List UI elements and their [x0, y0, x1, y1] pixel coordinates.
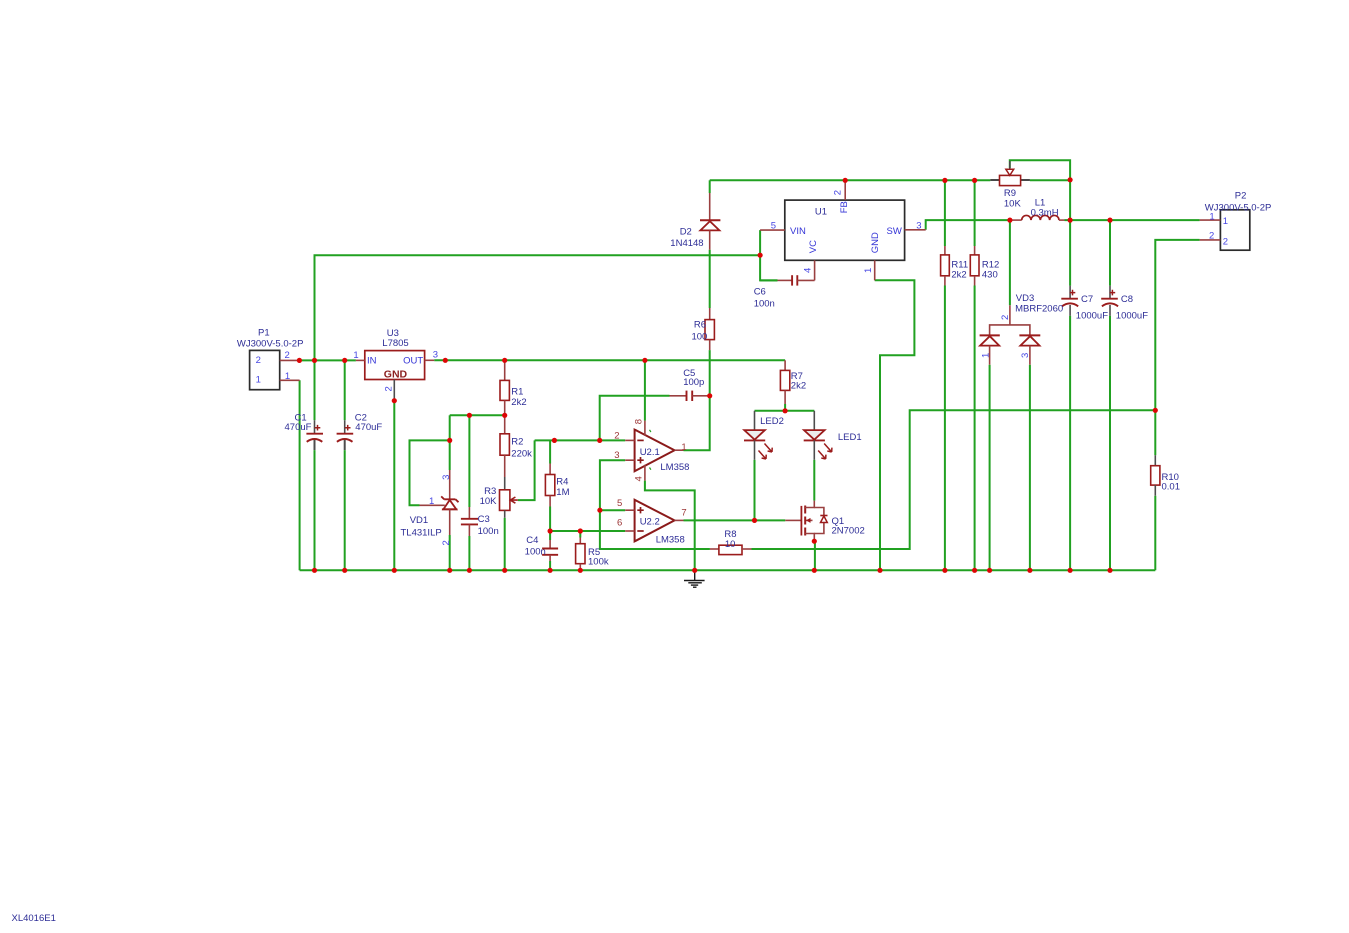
U2.1 pin numbers [614, 419, 686, 481]
label L1 [1031, 197, 1059, 218]
wire: R1 bottom node horizontal [450, 414, 505, 416]
capacitor C1 [306, 420, 323, 442]
label Q1 [832, 516, 865, 537]
node dot: R10/P2 sense node [1153, 408, 1158, 413]
svg-text:1: 1 [429, 496, 434, 507]
resistor R5 [576, 538, 585, 571]
node dot: C5/output node [707, 393, 712, 398]
label R6 [691, 320, 707, 343]
wire: VD1 cathode drop [449, 415, 451, 470]
wire: R7 bottom stub [784, 404, 786, 411]
node dot: Q1 source [812, 539, 817, 544]
node dot: bus R5 [578, 568, 583, 573]
svg-text:U2.1: U2.1 [640, 447, 660, 458]
wire: U2.2 pin6 net horizontal [550, 530, 625, 532]
svg-text:XL4016E1: XL4016E1 [12, 913, 56, 924]
node dot: P1 pin2 lead [297, 358, 302, 363]
svg-text:2: 2 [1000, 315, 1011, 320]
svg-text:1: 1 [256, 374, 261, 385]
resistor R7 [780, 360, 789, 404]
label R7 [791, 371, 806, 392]
svg-text:TL431ILP: TL431ILP [401, 527, 442, 538]
wire: R9 wiper loop [1010, 160, 1070, 180]
P2 pin numbers [1209, 212, 1228, 248]
U1 pin names [790, 201, 902, 253]
wire: LED2 cathode down [754, 460, 756, 521]
op-amp U2.2 [625, 500, 683, 542]
node dot: VIN/C6 node [758, 253, 763, 258]
capacitor C8 [1101, 286, 1118, 316]
capacitor C2 [337, 420, 354, 442]
wire: Q1 source to bus [814, 541, 816, 570]
node dot: R11 top [942, 178, 947, 183]
resistor R2 [500, 415, 509, 477]
VD3 pin numbers [980, 315, 1031, 358]
node dot: LED2/gate node [752, 518, 757, 523]
transistor Q1 2N7002 [785, 501, 827, 542]
label U2.2 [640, 517, 685, 546]
node dot: U3 OUT lead [443, 358, 448, 363]
svg-text:OUT: OUT [403, 356, 423, 367]
node dot: VD1 cathode [447, 438, 452, 443]
svg-text:IN: IN [367, 356, 377, 367]
wire: FB top net horizontal [710, 179, 1070, 181]
svg-text:6: 6 [617, 517, 622, 528]
svg-text:1: 1 [285, 371, 290, 382]
wire: R3 wiper up to inverting node [518, 440, 535, 500]
node dot: bus VD1 [447, 568, 452, 573]
node dot: FB pin [843, 178, 848, 183]
svg-text:SW: SW [886, 226, 901, 237]
svg-text:LED2: LED2 [760, 416, 784, 427]
svg-text:3: 3 [916, 220, 921, 231]
svg-text:1: 1 [1209, 212, 1214, 223]
svg-text:VC: VC [808, 240, 819, 253]
wire: U2.1 pin2 net horizontal [535, 439, 626, 441]
svg-text:0.3mH: 0.3mH [1031, 208, 1059, 219]
node dot: bus VD3-1 [987, 568, 992, 573]
resistor R8 [710, 545, 752, 554]
node dot: bus C8 [1107, 568, 1112, 573]
svg-text:2: 2 [285, 350, 290, 361]
U1 pin numbers [771, 190, 922, 273]
wire: VD3 anode 1 to bus [989, 365, 991, 571]
svg-text:100k: 100k [588, 557, 609, 568]
svg-text:WJ300V-5.0-2P: WJ300V-5.0-2P [237, 338, 304, 349]
svg-text:2: 2 [256, 355, 261, 366]
node dot: VOUT/C7 node [1068, 218, 1073, 223]
svg-text:R1: R1 [511, 386, 523, 397]
U3 pin names [367, 356, 423, 381]
svg-text:0.01: 0.01 [1162, 482, 1181, 493]
regulator U3 L7805 [356, 351, 434, 401]
label P1 [237, 327, 304, 349]
node dot: R12 top [972, 178, 977, 183]
LED LED2 [744, 411, 772, 460]
svg-text:1: 1 [353, 350, 358, 361]
wire: VD3 common pin up to SW node [1009, 220, 1011, 305]
wire: D2 top from FB rail [709, 180, 711, 193]
potentiometer R3 [500, 477, 518, 518]
svg-text:GND: GND [870, 232, 881, 253]
node dot: R4 top [552, 438, 557, 443]
svg-text:U2.2: U2.2 [640, 517, 660, 528]
svg-text:2: 2 [614, 430, 619, 441]
wire: LED1 cathode to Q1 drain [813, 460, 815, 501]
svg-text:470uF: 470uF [285, 422, 312, 433]
svg-text:2k2: 2k2 [791, 381, 806, 392]
label R4 [556, 476, 569, 498]
wire: U2.1 pin3 / U2.2 pin5 / R8 net [600, 460, 710, 549]
wire: U2.1 pin4 route to ground point [645, 481, 695, 571]
svg-text:MBRF2060: MBRF2060 [1015, 304, 1063, 315]
svg-text:VD1: VD1 [410, 515, 428, 526]
svg-text:GND: GND [384, 368, 408, 380]
node dot: bus C7 [1068, 568, 1073, 573]
svg-text:100p: 100p [683, 377, 704, 388]
svg-text:VD3: VD3 [1016, 293, 1034, 304]
svg-text:LM358: LM358 [660, 462, 689, 473]
svg-text:1M: 1M [556, 487, 569, 498]
label R1 [511, 386, 526, 408]
node dot: U3 GND lead [392, 398, 397, 403]
wire: input rail P1 pin2 to U3 IN [298, 359, 356, 361]
svg-text:C6: C6 [754, 287, 766, 298]
label D2 [670, 227, 703, 249]
node dot: R1 top [502, 358, 507, 363]
U2.2 pin numbers [617, 498, 687, 528]
node dot: bus U3 [392, 568, 397, 573]
wire: SW node from U1 to L1 [926, 220, 1010, 230]
label R9 [1004, 188, 1022, 209]
wire: U1 GND pin route to ground bus [875, 280, 915, 570]
svg-text:2: 2 [384, 386, 395, 391]
wire: R10 column [1154, 410, 1156, 570]
svg-text:1N4148: 1N4148 [670, 238, 703, 249]
shunt regulator VD1 TL431ILP [420, 470, 459, 535]
resistor R1 [500, 360, 509, 415]
wire: R4 bottom to pin6 node [549, 507, 551, 541]
wire: C7 column [1069, 180, 1071, 571]
node dot: bus C4 [548, 568, 553, 573]
wire: R12 column [974, 180, 976, 570]
svg-text:P2: P2 [1235, 190, 1247, 201]
wire: ground bus [300, 569, 1156, 571]
node dot: U2.1 pin8 rail [642, 358, 647, 363]
capacitor C7 [1061, 286, 1078, 316]
svg-text:VIN: VIN [790, 226, 806, 237]
node dot: C5 branch [597, 438, 602, 443]
P1 pin numbers [256, 350, 291, 385]
svg-text:10K: 10K [480, 496, 498, 507]
wire: VD1 anode to bus [449, 535, 451, 570]
svg-text:2: 2 [441, 540, 452, 545]
svg-text:1: 1 [681, 442, 686, 453]
svg-text:100n: 100n [754, 299, 775, 310]
svg-text:LM358: LM358 [656, 535, 685, 546]
wire: C2 branch [344, 360, 346, 570]
capacitor C3 [461, 507, 478, 536]
wire: 5V rail U3 OUT to R7 [434, 359, 785, 361]
wire: C5 left branch [600, 396, 670, 441]
wire: R11 column [944, 180, 946, 570]
wire: R4 top branch [549, 440, 551, 463]
svg-text:LED1: LED1 [838, 432, 862, 443]
svg-text:220k: 220k [511, 448, 532, 459]
svg-text:3: 3 [1020, 353, 1031, 358]
wire: P2 pin2 down to sense node [1155, 240, 1199, 410]
label R8 [724, 529, 736, 550]
label P2 [1205, 190, 1272, 213]
svg-text:WJ300V-5.0-2P: WJ300V-5.0-2P [1205, 203, 1272, 214]
node dot: SW/VD3 node [1007, 218, 1012, 223]
wire: U2.2 output to Q1 gate [684, 519, 786, 521]
label R5 [588, 547, 609, 568]
svg-text:2: 2 [1209, 230, 1214, 241]
label C3 [478, 514, 499, 537]
controller U1 [760, 180, 926, 280]
label U2.1 [640, 447, 690, 473]
svg-text:P1: P1 [258, 327, 270, 338]
svg-text:3: 3 [614, 450, 619, 461]
label R12 [982, 260, 999, 281]
wire: C1 branch [314, 360, 316, 570]
svg-text:100n: 100n [478, 526, 499, 537]
label C7 [1076, 294, 1108, 321]
label R11 [951, 260, 968, 281]
ground [684, 570, 705, 587]
label R2 [511, 437, 532, 460]
op-amp U2.1 [625, 421, 683, 481]
svg-text:8: 8 [633, 419, 644, 424]
wire: C8 column [1109, 220, 1111, 570]
label VD3 [1015, 293, 1063, 315]
svg-text:1: 1 [863, 268, 874, 273]
svg-text:7: 7 [681, 507, 686, 518]
connector P1 [250, 350, 300, 389]
node dot: bus C1 [312, 568, 317, 573]
capacitor C5 [670, 391, 710, 401]
U3 pin numbers [353, 350, 438, 392]
wire: VIN pin jog down to C6 [760, 230, 777, 280]
svg-text:L1: L1 [1035, 197, 1046, 208]
label U3 [382, 328, 408, 349]
svg-text:3: 3 [433, 350, 438, 361]
node dot: bus R11 [942, 568, 947, 573]
label R3 [480, 486, 498, 507]
node dot: R4/C4 node [548, 528, 553, 533]
inductor L1 [1010, 215, 1065, 220]
svg-text:2: 2 [833, 190, 844, 195]
node dot: bus Q1 [812, 568, 817, 573]
svg-text:R4: R4 [556, 476, 568, 487]
node dot: R7/LED node [783, 408, 788, 413]
wire: VD3 anode 3 to bus [1029, 365, 1031, 571]
resistor R11 [941, 246, 950, 286]
node dot: bus ground [692, 568, 697, 573]
wire: C4 bottom to bus [549, 561, 551, 570]
svg-text:1000uF: 1000uF [1116, 310, 1148, 321]
node dot: C1 top [312, 358, 317, 363]
wire: VIN long wire to input net [315, 255, 761, 360]
svg-text:100: 100 [691, 332, 707, 343]
svg-text:4: 4 [803, 268, 814, 273]
capacitor C4 [542, 540, 558, 561]
resistor R6 [705, 308, 714, 350]
node dot: bus VD3-3 [1027, 568, 1032, 573]
label C2 [355, 413, 383, 434]
node dot: R5 top [578, 528, 583, 533]
svg-text:10: 10 [725, 539, 736, 550]
wire: LED anode bar [755, 410, 815, 412]
wire: D2 to R6 [709, 250, 711, 308]
svg-text:430: 430 [982, 269, 998, 280]
wire: C6 left link [760, 279, 777, 281]
node dot: bus C3 [467, 568, 472, 573]
svg-text:U1: U1 [815, 206, 827, 217]
label C4 [525, 535, 546, 557]
label VD1 [401, 515, 442, 539]
node dot: bus C2 [342, 568, 347, 573]
node dot: R9 right [1068, 177, 1073, 182]
resistor R10 [1151, 455, 1160, 496]
svg-text:5: 5 [771, 220, 776, 231]
node dot: C3 top [467, 413, 472, 418]
svg-text:470uF: 470uF [355, 422, 382, 433]
wire: R5 top stub [579, 531, 581, 538]
svg-text:5: 5 [617, 498, 622, 509]
wire: VOUT L1 to P2 pin1 [1065, 219, 1200, 221]
svg-text:L7805: L7805 [382, 338, 408, 349]
LED LED1 [804, 411, 832, 460]
svg-text:1000uF: 1000uF [1076, 310, 1108, 321]
wire: VD1 ref loop [410, 440, 450, 505]
svg-text:3: 3 [441, 475, 452, 480]
label C5 [683, 368, 704, 388]
diode D2 1N4148 [700, 193, 720, 250]
resistor R12 [970, 246, 979, 286]
svg-text:2k2: 2k2 [951, 269, 966, 280]
svg-text:4: 4 [633, 476, 644, 481]
svg-text:R6: R6 [694, 320, 706, 331]
svg-text:1: 1 [980, 353, 991, 358]
svg-text:C4: C4 [526, 535, 538, 546]
svg-text:C3: C3 [478, 514, 490, 525]
svg-text:10K: 10K [1004, 198, 1022, 209]
potentiometer R9 [990, 161, 1030, 186]
wire: U2.1 output to C5 node [684, 396, 710, 450]
node dot: bus U1 GND [877, 568, 882, 573]
VD1 pin numbers [429, 475, 452, 546]
svg-text:1: 1 [1223, 216, 1228, 227]
svg-text:2k2: 2k2 [511, 397, 526, 408]
wire: U3 GND down to bus [393, 401, 395, 571]
node dot: R1/R2 node [502, 413, 507, 418]
svg-text:2: 2 [1223, 236, 1228, 247]
node dot: C8 top [1107, 218, 1112, 223]
svg-text:C7: C7 [1081, 294, 1093, 305]
label R10 [1162, 472, 1181, 493]
label C6 [754, 287, 775, 310]
wire: R8 right to sense node [752, 410, 1156, 549]
connector P2 [1200, 210, 1250, 250]
dual diode VD3 MBRF2060 [980, 305, 1041, 364]
capacitor C6 [778, 275, 815, 285]
svg-text:R2: R2 [511, 437, 523, 448]
wire: U2.1 pin8 up to 5V rail [644, 360, 646, 420]
resistor R4 [545, 464, 554, 507]
wire: R6 bottom to C5 node [709, 350, 711, 396]
svg-text:D2: D2 [680, 227, 692, 238]
wire: R3 bottom to bus [504, 518, 506, 571]
label C1 [285, 413, 312, 434]
svg-text:2N7002: 2N7002 [832, 526, 865, 537]
node dot: bus R3 [502, 568, 507, 573]
node dot: bus R12 [972, 568, 977, 573]
wire: P1 pin1 down to bus [299, 380, 301, 570]
svg-text:C8: C8 [1121, 294, 1133, 305]
label C8 [1116, 294, 1148, 321]
svg-text:100n: 100n [525, 546, 546, 557]
node dot: pin5 branch [597, 508, 602, 513]
node dot: C2 top [342, 358, 347, 363]
svg-text:FB: FB [839, 201, 850, 213]
wire: C3 branch [468, 415, 470, 570]
